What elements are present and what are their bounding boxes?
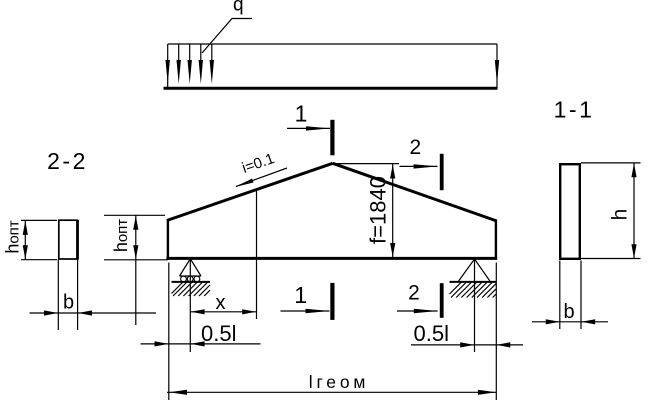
dimension 0.5l right arrows (460, 342, 510, 347)
svg-text:0.5l: 0.5l (201, 321, 236, 346)
svg-text:b: b (63, 292, 74, 314)
slope label i=0.1 (240, 150, 277, 177)
svg-text:1: 1 (295, 101, 308, 127)
svg-text:1-1: 1-1 (554, 97, 595, 123)
dimension f=1840 top arrow (390, 165, 395, 179)
gable beam left slope (167, 163, 333, 220)
section mark 1 top: cut bar (330, 120, 334, 156)
dimension f=1840 extension line from apex (333, 163, 399, 165)
right support hatching (450, 282, 497, 298)
svg-text:hопт: hопт (3, 220, 23, 253)
section 2-2 rectangle (59, 220, 78, 260)
dimension h_opt (beam) bottom extension (104, 259, 168, 261)
extension line beam left end (168, 263, 170, 401)
section 1-1 h top extension (581, 162, 641, 164)
dimension h_opt (beam) arrows (133, 216, 138, 230)
svg-text:lгеом: lгеом (309, 372, 369, 392)
dimension 0.5l right line (411, 344, 523, 346)
gable beam right edge (495, 221, 497, 260)
dimension f=1840 line (392, 164, 394, 258)
extension line right support axis (474, 259, 476, 352)
section 2-2 b arrows (44, 310, 92, 315)
section 1-1 b arrows (546, 319, 595, 324)
section mark 1 bottom: arrow line (281, 309, 330, 313)
extension line internal section (256, 258, 258, 319)
leader line for q (202, 19, 252, 54)
distributed load q arrows (166, 44, 215, 84)
section mark 1 bottom: cut bar (330, 283, 334, 320)
svg-text:hопт: hопт (111, 219, 131, 252)
svg-text:h: h (609, 209, 632, 221)
left support rollers (181, 276, 200, 282)
svg-text:f=1840: f=1840 (366, 176, 391, 244)
section 2-2 b dimension line (30, 312, 157, 314)
dimension l geom line (167, 391, 496, 393)
section 1-1 h arrows (631, 163, 636, 258)
section 1-1 b dimension line (532, 321, 608, 323)
section 1-1 h bottom extension (581, 258, 641, 260)
section mark 2 top: arrow line (400, 164, 438, 168)
section 2-2 h_opt bottom extension (21, 259, 57, 261)
section mark 2 bottom: arrow line (397, 309, 438, 313)
extension line beam right end (495, 263, 497, 401)
dimension f=1840 bottom arrow (390, 243, 395, 257)
svg-text:2: 2 (409, 136, 421, 159)
left support ground line (172, 281, 211, 283)
svg-text:q: q (233, 0, 244, 16)
section 1-1 rectangle (560, 164, 580, 259)
dimension l geom arrows (169, 390, 496, 395)
section 2-2 h_opt dimension line (24, 220, 26, 259)
gable beam left edge (167, 220, 169, 260)
dimension h_opt (beam) line (135, 215, 137, 325)
top beam elevation outline (164, 44, 498, 88)
svg-text:1: 1 (294, 282, 307, 308)
section mark 1 top: arrow line (287, 126, 330, 130)
section 1-1 h text (609, 209, 632, 221)
svg-text:0.5l: 0.5l (414, 321, 449, 346)
section 2-2 h_opt top extension (21, 219, 57, 221)
right support ground line (450, 281, 497, 283)
dimension x line (190, 311, 256, 313)
dimension x arrows (191, 309, 257, 314)
slope arrow line (235, 168, 287, 187)
load arrow at right end (495, 60, 499, 84)
left support hatching (172, 282, 211, 296)
dimension f=1840 text (366, 176, 391, 244)
gable beam bottom chord (166, 257, 497, 260)
section 1-1 h dimension line (633, 163, 635, 259)
svg-text:i=0.1: i=0.1 (240, 150, 277, 177)
extension line left support axis (189, 259, 191, 352)
dimension 0.5l left arrows (155, 341, 205, 346)
section 2-2 b extension lines (58, 260, 77, 330)
section mark 2 bottom: cut bar (440, 283, 444, 318)
gable beam right slope (333, 163, 497, 221)
svg-text:2-2: 2-2 (47, 148, 88, 174)
svg-text:x: x (216, 292, 226, 314)
right support (pin) triangle (458, 259, 491, 282)
dimension h_opt (beam) top extension (104, 214, 165, 216)
left support (roller) triangle (180, 259, 202, 276)
section 2-2 h_opt text (3, 220, 23, 253)
internal section line at x (256, 190, 258, 258)
section 2-2 h_opt arrows (23, 221, 28, 235)
svg-text:2: 2 (408, 281, 420, 304)
svg-text:b: b (564, 301, 575, 323)
dimension h_opt (beam) text (111, 219, 131, 252)
section mark 2 top: cut bar (440, 154, 444, 190)
dimension 0.5l left line (141, 343, 261, 345)
section 1-1 b extension lines (560, 261, 581, 330)
